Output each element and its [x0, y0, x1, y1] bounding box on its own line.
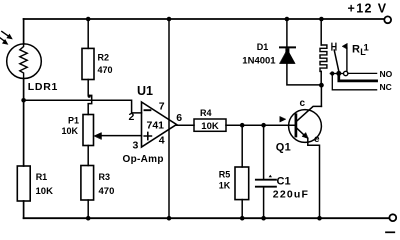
C1 polarity mark: [269, 175, 272, 178]
resistor R2: [82, 48, 94, 79]
relay arrow stem: [346, 48, 348, 71]
minus mark under 0V terminal: [386, 231, 394, 233]
resistor R1: [17, 166, 30, 201]
node emitter rail junction: [317, 216, 322, 221]
P1 wiper arrow: [94, 133, 102, 140]
svg-text:Q1: Q1: [276, 142, 291, 154]
op-amp minus mark: [145, 109, 151, 111]
relay armature pivot fork: [332, 43, 336, 50]
wire R5 to rail: [241, 200, 243, 219]
relay contact row line: [330, 73, 343, 75]
svg-text:e: e: [314, 134, 320, 145]
wire common thick line: [339, 75, 377, 81]
wire op-amp output pin6: [177, 124, 195, 126]
Q1 emitter diagonal: [297, 128, 306, 136]
wire emitter to rail: [308, 138, 320, 218]
svg-text:1N4001: 1N4001: [242, 56, 276, 67]
svg-text:P1: P1: [68, 116, 79, 126]
wire LDR to R1: [23, 79, 25, 167]
resistor R3: [81, 166, 94, 201]
svg-text:10K: 10K: [62, 126, 79, 136]
LDR1 zigzag element: [20, 44, 27, 79]
node D1 rail junction: [285, 17, 290, 22]
capacitor C1 bottom plate: [256, 186, 276, 188]
diode D1 apex stub: [285, 48, 289, 53]
wire R2 to P1 with crossover jog: [88, 80, 92, 115]
wire P1 to R3: [87, 146, 89, 166]
svg-text:c: c: [300, 98, 306, 109]
node R5 bottom junction: [240, 216, 245, 221]
relay armature: [334, 50, 339, 71]
wire R3 to rail: [87, 200, 89, 218]
terminal +12V: [384, 16, 391, 23]
wire R4 to Q1 base: [226, 124, 295, 126]
wire power pins 7/4 vertical: [168, 19, 170, 218]
node jog dot: [88, 95, 91, 98]
svg-text:470: 470: [99, 186, 115, 197]
wire C1 to rail: [263, 188, 265, 219]
svg-text:4: 4: [159, 135, 165, 147]
Q1 emitter arrow: [302, 133, 308, 139]
svg-text:NO: NO: [380, 69, 393, 79]
light arrow 2: [0, 38, 4, 41]
svg-text:R2: R2: [98, 53, 110, 63]
svg-text:3: 3: [133, 140, 139, 152]
svg-text:LDR1: LDR1: [28, 81, 58, 93]
diode D1 cathode bar: [280, 46, 295, 48]
svg-text:NC: NC: [380, 82, 392, 92]
wire pin2 input from LDR node: [24, 100, 142, 113]
wire top +12V rail: [24, 18, 384, 20]
light arrow 1: [2, 32, 9, 37]
relay NO contact circle: [344, 71, 348, 75]
wire left column top (rail to LDR): [23, 19, 25, 44]
node C1 top junction: [261, 123, 266, 128]
svg-text:7: 7: [159, 101, 165, 113]
wire rail to D1: [286, 19, 288, 47]
svg-text:470: 470: [98, 65, 113, 75]
node coil rail junction: [319, 17, 324, 22]
base current arrow: [280, 117, 286, 123]
relay RL1 coil: [320, 45, 327, 71]
svg-text:1K: 1K: [219, 181, 231, 191]
node coil/D1/collector junction: [319, 83, 324, 88]
svg-text:+12 V: +12 V: [348, 2, 388, 16]
relay actuation arrow: [342, 43, 347, 49]
svg-text:2: 2: [129, 111, 135, 123]
wire R5 drop: [241, 125, 243, 167]
svg-text:R3: R3: [99, 172, 111, 182]
svg-text:R5: R5: [219, 170, 231, 180]
svg-text:R1: R1: [36, 172, 48, 182]
node pin4 rail junction: [167, 216, 172, 221]
diode D1 triangle: [280, 49, 296, 63]
svg-text:220uF: 220uF: [273, 189, 309, 201]
svg-text:6: 6: [176, 112, 182, 124]
Q1 collector path: [297, 106, 322, 121]
svg-text:U1: U1: [137, 84, 153, 98]
wire R1 to rail: [23, 201, 25, 218]
wire wiper to pin3: [101, 135, 142, 137]
node R3 bottom rail junction: [86, 216, 91, 221]
resistor R5: [235, 167, 249, 200]
node contact common: [336, 71, 341, 76]
svg-text:R: R: [352, 44, 360, 56]
svg-text:10K: 10K: [201, 121, 219, 132]
LDR1 body: [7, 44, 42, 79]
svg-text:Op-Amp: Op-Amp: [123, 154, 164, 165]
svg-text:R4: R4: [200, 108, 212, 118]
wire rail to R2: [87, 19, 89, 48]
wire NO line: [348, 72, 377, 74]
svg-text:C1: C1: [277, 176, 291, 188]
wire bottom 0V rail: [24, 217, 390, 219]
wire C1 drop: [263, 125, 265, 179]
node R2 top rail junction: [86, 17, 91, 22]
potentiometer P1: [83, 115, 94, 146]
wire coil to collector node: [320, 71, 322, 106]
node pin7 rail junction: [167, 17, 172, 22]
svg-text:1: 1: [364, 43, 370, 54]
svg-text:10K: 10K: [36, 186, 54, 197]
node C1 bottom junction: [261, 216, 266, 221]
op-amp plus mark: [144, 132, 151, 139]
Q1 base bar: [295, 115, 298, 136]
op-amp U1 triangle: [142, 102, 177, 147]
svg-text:D1: D1: [257, 42, 269, 52]
wire NC line: [332, 75, 376, 90]
resistor R4: [194, 119, 226, 131]
node R5 top junction: [240, 123, 245, 128]
node LDR/R1/pin2 junction: [21, 98, 26, 103]
wire rail to relay coil: [320, 19, 322, 45]
svg-text:741: 741: [147, 120, 165, 132]
node contact left: [330, 71, 334, 75]
terminal 0V: [389, 214, 396, 221]
wire D1 to coil node: [287, 64, 322, 85]
capacitor C1 top plate: [256, 179, 276, 181]
transistor Q1 body: [289, 110, 322, 143]
